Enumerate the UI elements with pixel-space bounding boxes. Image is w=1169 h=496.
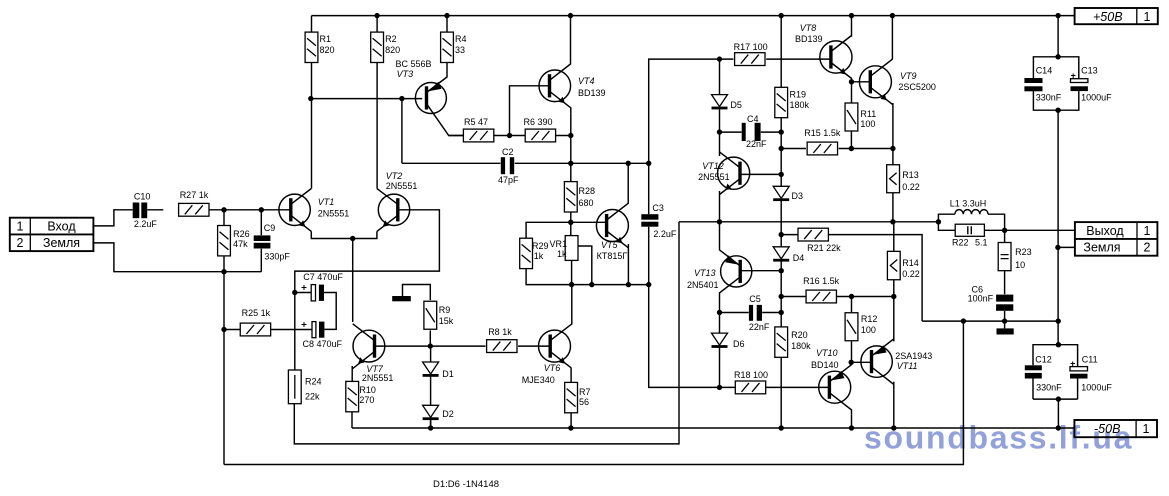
resistor R25: [240, 323, 270, 336]
wire R20 bottom to -50 rail: [780, 357, 782, 428]
wire C7 left: [295, 292, 311, 294]
wire VT7 base line / R8 line / VT6 base: [375, 345, 551, 347]
svg-text:R17 100: R17 100: [734, 42, 768, 52]
resistor R29: [520, 238, 533, 268]
resistor R4: [441, 32, 454, 62]
svg-text:C8 470uF: C8 470uF: [303, 339, 343, 349]
wire -50V bottom rail: [352, 427, 1074, 429]
wire output line y221.8: [679, 221, 938, 223]
resistor R19: [775, 87, 788, 117]
wire VR1 tap: [578, 246, 592, 285]
svg-text:2N5401: 2N5401: [687, 280, 719, 290]
wire feedback down and left: [294, 222, 679, 444]
wire R21 line: [781, 235, 922, 322]
svg-text:R4: R4: [455, 34, 467, 44]
resistor R1: [305, 32, 318, 62]
svg-text:180k: 180k: [790, 100, 810, 110]
resistor R26: [218, 226, 231, 256]
resistor R7: [565, 382, 578, 412]
svg-text:1k: 1k: [557, 249, 567, 259]
wire VT8 emitter to VT9 base: [852, 80, 871, 81]
wire L1 right joining R22 right: [984, 214, 1004, 230]
diode D5: [712, 95, 728, 110]
wire C9 column: [260, 210, 262, 272]
svg-text:0.22: 0.22: [902, 182, 920, 192]
svg-text:VT12: VT12: [702, 161, 724, 171]
wire C6 bottom to ground rail: [1004, 311, 1006, 321]
svg-text:22nF: 22nF: [746, 139, 767, 149]
resistor R15: [807, 142, 837, 155]
wire VT4 emitter / R28 column: [570, 114, 572, 236]
wire R9 bottom: [429, 330, 431, 346]
wire R11 column: [850, 82, 852, 149]
wire C3 column top: [649, 59, 734, 214]
svg-text:R6 390: R6 390: [524, 117, 553, 127]
svg-text:R14: R14: [902, 258, 919, 268]
transistor VT6: [539, 324, 572, 368]
svg-text:R26: R26: [233, 229, 250, 239]
svg-text:C14: C14: [1036, 66, 1053, 76]
-50V connector box: [1074, 420, 1157, 437]
svg-text:R15 1.5k: R15 1.5k: [804, 128, 841, 138]
resistor R21: [798, 228, 828, 241]
svg-text:15k: 15k: [439, 316, 454, 326]
svg-text:VT1: VT1: [318, 197, 335, 207]
wire VT12 emitter column: [719, 191, 721, 222]
wire input row2 ground line: [93, 243, 261, 272]
resistor R16: [806, 290, 836, 303]
svg-text:2N5551: 2N5551: [386, 181, 418, 191]
wire ground symbol stub C6: [1004, 321, 1006, 328]
wire C14/C13 block frame: [1033, 57, 1078, 110]
wire R19 column rail to C4: [780, 16, 782, 133]
capacitor C3: [641, 214, 658, 227]
svg-text:R25 1k: R25 1k: [242, 308, 271, 318]
svg-text:180k: 180k: [791, 341, 811, 351]
svg-text:C9: C9: [264, 223, 276, 233]
svg-text:22nF: 22nF: [749, 322, 770, 332]
svg-text:VT11: VT11: [897, 361, 918, 371]
wire VT4 collector to rail: [570, 16, 572, 65]
wire D5 column: [719, 59, 721, 132]
capacitor C4: [742, 123, 761, 141]
svg-text:47k: 47k: [233, 239, 248, 249]
svg-text:C12: C12: [1035, 355, 1052, 365]
transistor VT4: [539, 64, 571, 114]
svg-text:VT6: VT6: [544, 363, 561, 373]
svg-text:BD139: BD139: [795, 34, 823, 44]
svg-text:BD140: BD140: [811, 360, 839, 370]
capacitor C7: [302, 285, 325, 301]
svg-text:VT2: VT2: [386, 171, 403, 181]
resistor R12: [845, 313, 858, 341]
wire R29 bottom / bias line y284.6: [526, 269, 649, 285]
svg-text:R23: R23: [1015, 247, 1032, 257]
svg-text:R7: R7: [579, 387, 591, 397]
svg-text:D2: D2: [442, 409, 454, 419]
resistor R2: [371, 32, 384, 62]
svg-text:C5: C5: [749, 294, 761, 304]
diode D2: [423, 405, 439, 420]
wire R10 bottom to rail: [351, 412, 353, 428]
svg-text:R18 100: R18 100: [734, 370, 768, 380]
svg-text:C2: C2: [502, 147, 514, 157]
wire column x781 D4 to R20: [780, 261, 782, 327]
svg-text:D1: D1: [442, 369, 454, 379]
svg-text:VT8: VT8: [800, 23, 817, 33]
capacitor C5: [749, 305, 762, 321]
transistor VT9: [859, 59, 893, 104]
wire R7 bottom to rail: [570, 413, 572, 428]
svg-text:R27 1k: R27 1k: [180, 190, 209, 200]
junction dots: [374, 13, 379, 18]
resistor R24: [288, 370, 301, 404]
svg-text:КТ815Г: КТ815Г: [597, 251, 628, 261]
wire VT11 emitter column: [893, 297, 895, 342]
svg-text:VR1: VR1: [550, 239, 568, 249]
resistor R23: [998, 243, 1011, 271]
svg-text:5.1: 5.1: [975, 238, 988, 248]
resistor R27: [179, 203, 209, 216]
wire ground rail y321: [922, 320, 1058, 322]
wire R26 column: [223, 210, 225, 272]
svg-text:VT10: VT10: [816, 348, 838, 358]
wire R2 column / VT2 collector: [376, 16, 378, 189]
svg-text:330nF: 330nF: [1036, 383, 1062, 393]
svg-text:VT9: VT9: [900, 71, 917, 81]
svg-text:VT3: VT3: [397, 69, 414, 79]
capacitor C6: [996, 295, 1013, 311]
wire VT11 collector to -50 rail: [893, 382, 895, 428]
svg-text:VT13: VT13: [694, 268, 716, 278]
wire C10 to R27: [147, 209, 163, 211]
wire VT9 emitter / R13 column: [892, 103, 894, 222]
transistor VT7: [352, 324, 385, 369]
wire VT3 base line: [311, 98, 422, 100]
svg-text:R1: R1: [320, 34, 332, 44]
resistor R18: [735, 381, 765, 394]
svg-text:1: 1: [1143, 422, 1150, 436]
wire R27 to VT1 base: [194, 209, 291, 211]
transistor VT3: [415, 77, 463, 136]
capacitor C9: [254, 235, 271, 248]
trimmer VR1: [565, 236, 578, 261]
svg-text:R12: R12: [861, 314, 878, 324]
wire R4 column / VT3 emitter: [446, 16, 448, 78]
svg-text:2: 2: [17, 236, 24, 250]
wire VT1/VT2 emitters to tail: [311, 231, 377, 238]
wire right column C14 block to ground rail: [1057, 110, 1059, 345]
svg-text:100nF: 100nF: [968, 294, 994, 304]
wire +50V top rail: [312, 15, 1075, 17]
svg-text:2N5551: 2N5551: [362, 373, 394, 383]
svg-text:2N5551: 2N5551: [698, 172, 730, 182]
svg-text:Выход: Выход: [1086, 224, 1124, 238]
transistor VT13: [720, 222, 752, 313]
capacitor C11: [1070, 362, 1088, 379]
svg-text:1: 1: [1144, 224, 1151, 238]
wire VT6 collector up to bias line: [571, 285, 573, 325]
wire C3 column bottom to D6/R18 node: [649, 227, 736, 388]
wire C4 line: [720, 131, 782, 133]
svg-text:56: 56: [579, 397, 589, 407]
svg-text:10: 10: [1015, 260, 1025, 270]
svg-text:C4: C4: [747, 114, 759, 124]
capacitor C14: [1024, 78, 1042, 91]
resistor R13: [887, 165, 900, 193]
diode D3: [773, 186, 789, 201]
svg-text:R2: R2: [385, 34, 397, 44]
svg-text:C11: C11: [1082, 355, 1098, 365]
svg-text:100: 100: [860, 119, 875, 129]
svg-text:C3: C3: [652, 203, 664, 213]
wire VT5 base: [571, 221, 607, 223]
wire Zemlya row to ground column: [1058, 246, 1075, 248]
wire VR1 bottom: [571, 260, 573, 284]
svg-text:1000uF: 1000uF: [1081, 93, 1112, 103]
wire C5 line: [720, 312, 782, 314]
resistor R10: [346, 381, 359, 411]
svg-text:D4: D4: [793, 253, 805, 263]
wire VT9 collector to rail: [891, 16, 893, 60]
wire output to connector: [1005, 229, 1075, 231]
wire R18 right to VT10 base: [766, 386, 830, 388]
wire R9 top to local ground: [403, 285, 431, 301]
wire R12 column: [851, 297, 853, 363]
wire right column C12 block to -50 rail: [1057, 399, 1059, 428]
svg-text:Земля: Земля: [1083, 241, 1120, 255]
resistor R28: [564, 182, 577, 212]
svg-text:2.2uF: 2.2uF: [134, 219, 158, 229]
svg-text:VT5: VT5: [601, 240, 619, 250]
wire VT8 collector to rail: [851, 16, 853, 37]
ground symbol near C6: [997, 328, 1014, 334]
resistor R11: [845, 103, 858, 131]
resistor R14: [887, 251, 900, 279]
svg-text:R16 1.5k: R16 1.5k: [803, 276, 840, 286]
svg-text:330pF: 330pF: [264, 252, 290, 262]
wire VT12 base line: [740, 173, 781, 175]
wire R17 to VT8 base: [766, 58, 831, 60]
wire C7/C8 right column: [324, 293, 336, 330]
svg-text:C10: C10: [134, 192, 151, 202]
wire R16 line: [781, 296, 894, 298]
wire R26/R25 column down: [223, 272, 225, 465]
resistor R20: [775, 327, 788, 357]
wire VT7 emitter to R10: [351, 366, 353, 382]
svg-text:R22: R22: [952, 238, 969, 248]
capacitor C2: [501, 157, 514, 174]
svg-text:R19: R19: [790, 90, 807, 100]
svg-text:D6: D6: [733, 339, 745, 349]
wire R14 column: [893, 222, 895, 297]
+50V connector box: [1075, 8, 1158, 24]
diode D4: [773, 247, 789, 262]
svg-text:1: 1: [1144, 10, 1151, 24]
output connector box: [1075, 222, 1158, 256]
svg-text:47pF: 47pF: [498, 175, 519, 185]
svg-text:+50В: +50В: [1093, 10, 1123, 24]
svg-text:BC 556B: BC 556B: [396, 59, 432, 69]
diode D1: [423, 362, 439, 377]
svg-text:D1:D6 -1N4148: D1:D6 -1N4148: [433, 479, 499, 490]
svg-text:33: 33: [455, 45, 465, 55]
svg-text:R24: R24: [305, 377, 322, 387]
svg-text:2N5551: 2N5551: [318, 209, 350, 219]
capacitor C10: [133, 203, 148, 219]
transistor VT12: [718, 152, 750, 195]
svg-text:MJE340: MJE340: [522, 375, 555, 385]
svg-text:330nF: 330nF: [1036, 93, 1062, 103]
svg-text:R13: R13: [902, 170, 919, 180]
wire ground column x963 down to bottom ground line: [224, 321, 963, 464]
svg-text:22k: 22k: [305, 392, 320, 402]
wire VT5 emitter column: [627, 244, 629, 285]
resistor R8: [487, 340, 517, 353]
wire VT4 base column: [510, 86, 550, 136]
wire D2 bottom to rail: [430, 421, 432, 429]
svg-text:820: 820: [320, 45, 335, 55]
wire R29 top: [526, 222, 571, 238]
wire VT2 base line down and to C7 column: [295, 210, 440, 370]
svg-text:R21 22k: R21 22k: [807, 243, 841, 253]
svg-text:R10: R10: [359, 385, 376, 395]
wire R23 column: [1004, 230, 1006, 294]
inductor L1: [955, 210, 988, 215]
resistor R9: [424, 301, 437, 329]
wire right column +50 to C14 block: [1057, 16, 1059, 57]
wire column x781 C4 to D3: [780, 132, 782, 186]
wire R15 line: [781, 148, 893, 150]
svg-text:-50В: -50В: [1094, 422, 1120, 436]
svg-text:D3: D3: [792, 191, 804, 201]
svg-text:R5 47: R5 47: [464, 117, 488, 127]
svg-text:2.2uF: 2.2uF: [653, 229, 677, 239]
svg-text:R11: R11: [860, 109, 876, 119]
wire D1/D2 column: [430, 346, 432, 428]
svg-text:Вход: Вход: [47, 220, 76, 234]
capacitor C8: [302, 322, 325, 338]
svg-text:2SC5200: 2SC5200: [898, 82, 936, 92]
wire tail column to VT7 collector: [352, 239, 354, 323]
svg-text:1000uF: 1000uF: [1081, 383, 1112, 393]
wire VT13 base line: [740, 270, 781, 272]
svg-text:100: 100: [861, 325, 876, 335]
wire VT12 collector column: [719, 132, 721, 156]
capacitor C13: [1071, 74, 1088, 92]
wire output to L1 node: [938, 214, 955, 230]
wire R25 line to C8: [224, 329, 312, 331]
transistor VT2: [377, 189, 410, 232]
wire R5-R6 line: [449, 135, 571, 137]
svg-text:L1 3.3uH: L1 3.3uH: [950, 199, 987, 209]
svg-text:R20: R20: [791, 330, 808, 340]
svg-text:2SA1943: 2SA1943: [895, 351, 932, 361]
wire VT10 emitter junction to VT11 base: [851, 361, 871, 363]
svg-text:1: 1: [17, 220, 24, 234]
transistor VT10: [819, 362, 852, 414]
wire VT6 emitter to R7: [570, 368, 572, 383]
svg-text:C7 470uF: C7 470uF: [303, 272, 343, 282]
svg-text:0.22: 0.22: [902, 269, 920, 279]
svg-text:270: 270: [359, 395, 374, 405]
svg-text:R8 1k: R8 1k: [488, 327, 512, 337]
svg-text:820: 820: [385, 45, 400, 55]
svg-text:R29: R29: [532, 241, 549, 251]
resistor R5: [463, 129, 493, 142]
diode D6: [712, 333, 728, 348]
resistor R6: [525, 129, 555, 142]
transistor VT1: [279, 189, 311, 232]
wire C12/C11 block frame: [1033, 345, 1078, 399]
svg-text:1k: 1k: [534, 251, 544, 261]
svg-text:D5: D5: [730, 100, 742, 110]
transistor VT11: [861, 339, 894, 385]
svg-text:680: 680: [579, 198, 594, 208]
resistor R17: [735, 53, 765, 66]
svg-text:R28: R28: [579, 186, 596, 196]
svg-text:2: 2: [1144, 241, 1151, 255]
wire column x781 D3 to D4: [780, 200, 782, 247]
input connector box: [10, 218, 94, 251]
svg-text:BD139: BD139: [578, 88, 606, 98]
transistor VT8: [820, 36, 852, 82]
svg-text:VT4: VT4: [578, 76, 595, 86]
wire R1 column / VT1 collector: [311, 16, 313, 189]
svg-text:R9: R9: [439, 305, 451, 315]
svg-text:C13: C13: [1081, 66, 1098, 76]
capacitor C12: [1025, 365, 1042, 378]
wire VT10 collector to -50 rail: [851, 414, 853, 428]
ground symbol near R9: [392, 296, 411, 301]
wire VT5 collector column: [627, 163, 629, 204]
wire C2 branch from VT3 base: [401, 99, 403, 164]
svg-text:Земля: Земля: [43, 236, 80, 250]
wire C2 horizontal line: [402, 162, 649, 164]
resistor R22: [955, 224, 984, 236]
wire input row1 to C10: [93, 210, 132, 226]
transistor VT5: [596, 203, 628, 248]
wire D6 column: [719, 313, 721, 388]
